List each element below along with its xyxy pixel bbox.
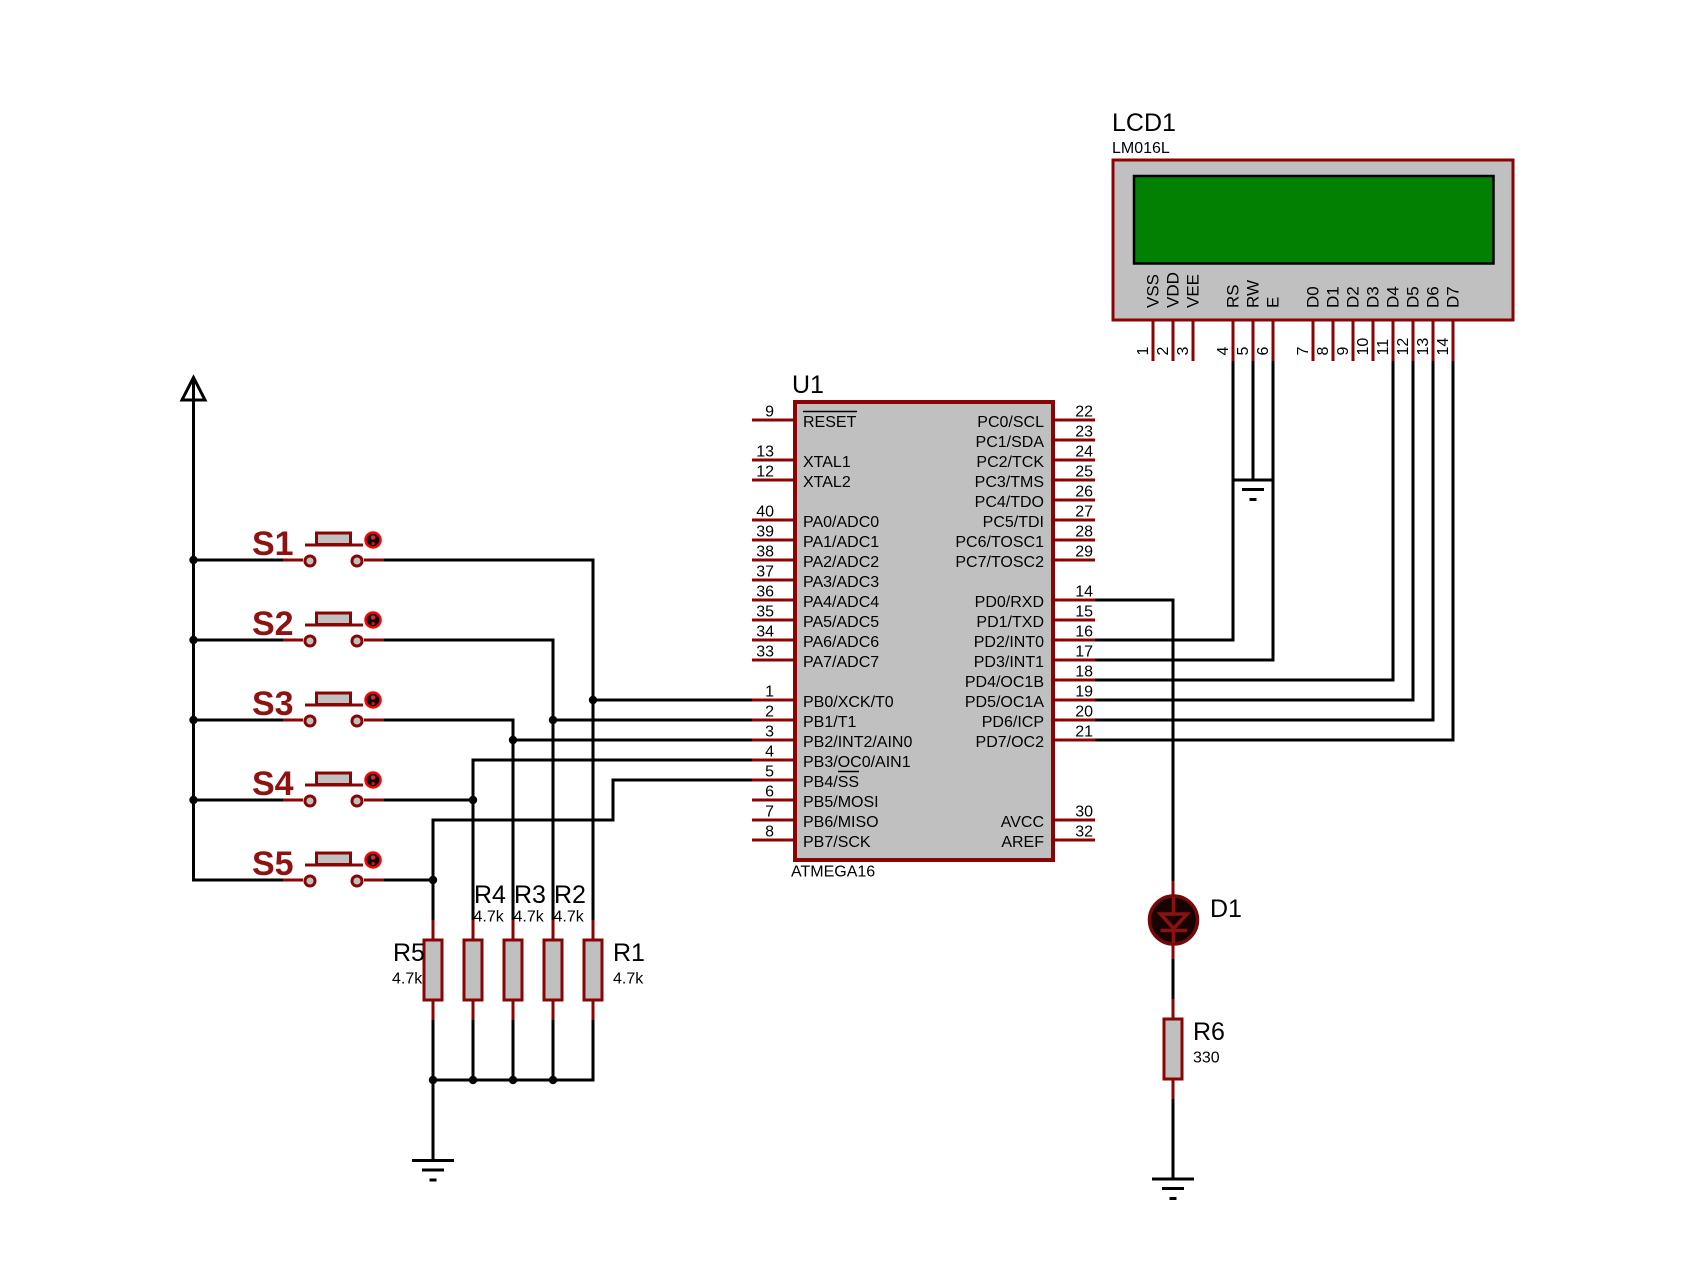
svg-text:PD3/INT1: PD3/INT1 bbox=[974, 654, 1044, 671]
svg-text:30: 30 bbox=[1075, 804, 1093, 821]
LCD1 pin 11 (D4) bbox=[1375, 286, 1403, 361]
resistor R5 (4.7k) bbox=[392, 920, 442, 1020]
svg-text:1: 1 bbox=[765, 684, 774, 701]
U1 pin 13 (XTAL1) bbox=[752, 444, 851, 472]
svg-text:1: 1 bbox=[1135, 347, 1152, 356]
wire node E down to R5 bbox=[432, 880, 435, 920]
wire R3 bottom bbox=[512, 1020, 515, 1080]
junction node C bbox=[509, 736, 517, 744]
U1 pin 17 (PD3/INT1) bbox=[974, 644, 1095, 672]
wire S1 to node A bbox=[384, 559, 595, 562]
svg-text:D5: D5 bbox=[1404, 286, 1423, 308]
svg-text:28: 28 bbox=[1075, 524, 1093, 541]
svg-text:VSS: VSS bbox=[1144, 274, 1163, 308]
svg-text:VDD: VDD bbox=[1164, 272, 1183, 308]
svg-text:11: 11 bbox=[1375, 339, 1392, 356]
svg-text:PA0/ADC0: PA0/ADC0 bbox=[803, 514, 879, 531]
LCD1 pin 7 (D0) bbox=[1295, 286, 1323, 361]
svg-text:18: 18 bbox=[1075, 664, 1093, 681]
svg-text:2: 2 bbox=[1155, 347, 1172, 356]
svg-text:4.7k: 4.7k bbox=[613, 971, 644, 988]
wire R1 bottom bbox=[592, 1020, 595, 1082]
wire R4 bottom bbox=[472, 1020, 475, 1080]
wire U1 PD6 to LCD D6 bbox=[1095, 719, 1435, 722]
svg-text:36: 36 bbox=[756, 584, 774, 601]
junction rail S2 bbox=[189, 636, 197, 644]
svg-text:D1: D1 bbox=[1210, 895, 1242, 923]
wire S2 to node B bbox=[384, 639, 555, 642]
U1 pin 32 (AREF) bbox=[1001, 824, 1095, 852]
svg-text:7: 7 bbox=[1295, 347, 1312, 356]
push button S2 bbox=[252, 605, 384, 646]
U1 pin 33 (PA7/ADC7) bbox=[752, 644, 879, 672]
svg-text:2: 2 bbox=[765, 704, 774, 721]
svg-text:PB7/SCK: PB7/SCK bbox=[803, 834, 871, 851]
U1 pin 40 (PA0/ADC0) bbox=[752, 504, 879, 532]
wire rail to S4 bbox=[192, 799, 283, 802]
svg-text:R2: R2 bbox=[554, 881, 586, 909]
svg-text:R4: R4 bbox=[474, 881, 506, 909]
svg-text:PC6/TOSC1: PC6/TOSC1 bbox=[955, 534, 1044, 551]
svg-text:17: 17 bbox=[1075, 644, 1093, 661]
LCD1 pin 5 (RW) bbox=[1235, 280, 1263, 361]
push button S4 bbox=[252, 765, 384, 806]
wire U1 PD5 to LCD D5 bbox=[1095, 699, 1415, 702]
svg-text:23: 23 bbox=[1075, 424, 1093, 441]
wire node D up to U1 PB3 bbox=[472, 760, 475, 802]
svg-text:PA4/ADC4: PA4/ADC4 bbox=[803, 594, 879, 611]
svg-text:PB2/INT2/AIN0: PB2/INT2/AIN0 bbox=[803, 734, 912, 751]
junction node E bbox=[429, 876, 437, 884]
U1 pin 27 (PC5/TDI) bbox=[983, 504, 1095, 532]
junction rail S3 bbox=[189, 716, 197, 724]
svg-text:S4: S4 bbox=[252, 765, 294, 803]
push button S1 bbox=[252, 525, 384, 566]
svg-text:21: 21 bbox=[1075, 724, 1093, 741]
svg-text:D6: D6 bbox=[1424, 286, 1443, 308]
LCD1 pin 1 (VSS) bbox=[1135, 274, 1163, 361]
U1 pin 9 (RESET) bbox=[752, 404, 857, 432]
junction rail S1 bbox=[189, 556, 197, 564]
svg-text:20: 20 bbox=[1075, 704, 1093, 721]
svg-text:40: 40 bbox=[756, 504, 774, 521]
U1 pin 19 (PD5/OC1A) bbox=[965, 684, 1095, 712]
svg-text:6: 6 bbox=[1255, 347, 1272, 356]
power terminal arrow bbox=[182, 378, 205, 401]
svg-text:PD0/RXD: PD0/RXD bbox=[975, 594, 1044, 611]
svg-text:PC3/TMS: PC3/TMS bbox=[975, 474, 1044, 491]
svg-text:9: 9 bbox=[1335, 347, 1352, 356]
svg-text:25: 25 bbox=[1075, 464, 1093, 481]
svg-text:12: 12 bbox=[1395, 338, 1412, 356]
U1 pin 25 (PC3/TMS) bbox=[975, 464, 1095, 492]
wire node C to U1 PB2 bbox=[513, 739, 752, 742]
U1 pin 21 (PD7/OC2) bbox=[976, 724, 1095, 752]
LCD1 pin 4 (RS) bbox=[1215, 284, 1243, 361]
svg-text:XTAL1: XTAL1 bbox=[803, 454, 851, 471]
ground symbol (LCD RW) bbox=[1232, 480, 1274, 500]
wire node A down to R1 bbox=[592, 700, 595, 920]
svg-text:AREF: AREF bbox=[1001, 834, 1044, 851]
U1 pin 12 (XTAL2) bbox=[752, 464, 851, 492]
U1 pin 6 (PB5/MOSI) bbox=[752, 784, 879, 812]
svg-text:R5: R5 bbox=[393, 939, 425, 967]
U1 pin 36 (PA4/ADC4) bbox=[752, 584, 879, 612]
svg-text:15: 15 bbox=[1075, 604, 1093, 621]
svg-text:29: 29 bbox=[1075, 544, 1093, 561]
svg-text:R6: R6 bbox=[1193, 1018, 1225, 1046]
U1 pin 37 (PA3/ADC3) bbox=[752, 564, 879, 592]
junction rail S4 bbox=[189, 796, 197, 804]
svg-text:37: 37 bbox=[756, 564, 774, 581]
svg-text:S5: S5 bbox=[252, 845, 294, 883]
wire D1 to R6 bbox=[1172, 959, 1175, 999]
svg-text:RW: RW bbox=[1244, 280, 1263, 308]
svg-text:8: 8 bbox=[765, 824, 774, 841]
wire node E up to U1 PB4 bbox=[432, 820, 435, 882]
U1 pin 1 (PB0/XCK/T0) bbox=[752, 684, 894, 712]
svg-text:E: E bbox=[1264, 297, 1283, 308]
svg-text:7: 7 bbox=[765, 804, 774, 821]
svg-text:LCD1: LCD1 bbox=[1112, 109, 1176, 137]
U1 pin 18 (PD4/OC1B) bbox=[965, 664, 1095, 692]
U1 pin 15 (PD1/TXD) bbox=[976, 604, 1095, 632]
U1 pin 23 (PC1/SDA) bbox=[976, 424, 1095, 452]
wire node B to U1 PB1 bbox=[553, 719, 752, 722]
svg-text:PD7/OC2: PD7/OC2 bbox=[976, 734, 1045, 751]
svg-text:RS: RS bbox=[1224, 284, 1243, 308]
svg-text:12: 12 bbox=[756, 464, 774, 481]
U1 pin 39 (PA1/ADC1) bbox=[752, 524, 879, 552]
junction bus R5 bbox=[429, 1076, 437, 1084]
svg-text:4.7k: 4.7k bbox=[392, 971, 423, 988]
svg-text:PD6/ICP: PD6/ICP bbox=[982, 714, 1044, 731]
IC U1 ATMEGA16 body bbox=[791, 371, 1053, 881]
wire node A to U1 PB0 bbox=[593, 699, 752, 702]
svg-text:39: 39 bbox=[756, 524, 774, 541]
svg-text:R1: R1 bbox=[613, 939, 645, 967]
svg-text:32: 32 bbox=[1075, 824, 1093, 841]
LCD1 pin 9 (D2) bbox=[1335, 286, 1363, 361]
svg-text:330: 330 bbox=[1193, 1050, 1220, 1067]
svg-text:D2: D2 bbox=[1344, 286, 1363, 308]
svg-text:D4: D4 bbox=[1384, 286, 1403, 308]
svg-text:D7: D7 bbox=[1444, 286, 1463, 308]
svg-text:XTAL2: XTAL2 bbox=[803, 474, 851, 491]
svg-text:VEE: VEE bbox=[1184, 274, 1203, 308]
svg-text:13: 13 bbox=[1415, 338, 1432, 356]
svg-text:34: 34 bbox=[756, 624, 774, 641]
wire rail to S3 bbox=[192, 719, 283, 722]
wire U1 PD0 to D1 bbox=[1095, 599, 1175, 602]
svg-text:6: 6 bbox=[765, 784, 774, 801]
svg-text:9: 9 bbox=[765, 404, 774, 421]
svg-text:PC4/TDO: PC4/TDO bbox=[975, 494, 1044, 511]
power arrow stem bbox=[192, 381, 195, 402]
svg-text:PD5/OC1A: PD5/OC1A bbox=[965, 694, 1044, 711]
svg-text:PB0/XCK/T0: PB0/XCK/T0 bbox=[803, 694, 894, 711]
wire R5 bottom bbox=[432, 1020, 435, 1080]
svg-text:S3: S3 bbox=[252, 685, 294, 723]
svg-text:5: 5 bbox=[765, 764, 774, 781]
resistor R6 (330) bbox=[1164, 999, 1225, 1099]
push button S3 bbox=[252, 685, 384, 726]
wire R2 bottom bbox=[552, 1020, 555, 1080]
svg-text:PC7/TOSC2: PC7/TOSC2 bbox=[955, 554, 1044, 571]
svg-text:19: 19 bbox=[1075, 684, 1093, 701]
wire U1 PD2 to LCD RS bbox=[1095, 639, 1235, 642]
svg-text:PA5/ADC5: PA5/ADC5 bbox=[803, 614, 879, 631]
U1 pin 3 (PB2/INT2/AIN0) bbox=[752, 724, 912, 752]
U1 pin 28 (PC6/TOSC1) bbox=[955, 524, 1095, 552]
svg-text:PB6/MISO: PB6/MISO bbox=[803, 814, 879, 831]
wire S5 to node E bbox=[384, 879, 433, 882]
svg-text:PB3/OC0/AIN1: PB3/OC0/AIN1 bbox=[803, 754, 911, 771]
wire LCD RW to ground bbox=[1252, 361, 1255, 480]
wire rail to S1 bbox=[192, 559, 283, 562]
svg-text:D1: D1 bbox=[1324, 286, 1343, 308]
svg-text:14: 14 bbox=[1075, 584, 1093, 601]
LCD1 pin 13 (D6) bbox=[1415, 286, 1443, 361]
svg-text:5: 5 bbox=[1235, 347, 1252, 356]
wire S4 to node D bbox=[384, 799, 473, 802]
U1 pin 26 (PC4/TDO) bbox=[975, 484, 1095, 512]
svg-text:4.7k: 4.7k bbox=[554, 909, 585, 926]
svg-text:4.7k: 4.7k bbox=[514, 909, 545, 926]
wire resistor ground bus bbox=[433, 1079, 595, 1082]
svg-text:4: 4 bbox=[765, 744, 774, 761]
svg-text:16: 16 bbox=[1075, 624, 1093, 641]
U1 pin 20 (PD6/ICP) bbox=[982, 704, 1095, 732]
svg-text:3: 3 bbox=[765, 724, 774, 741]
U1 pin 8 (PB7/SCK) bbox=[752, 824, 871, 852]
svg-text:PA1/ADC1: PA1/ADC1 bbox=[803, 534, 879, 551]
svg-text:10: 10 bbox=[1355, 338, 1372, 356]
wire rail to S5 bbox=[192, 879, 283, 882]
junction bus R3 bbox=[509, 1076, 517, 1084]
svg-text:U1: U1 bbox=[792, 371, 824, 399]
svg-text:S1: S1 bbox=[252, 525, 294, 563]
svg-text:4: 4 bbox=[1215, 347, 1232, 356]
svg-text:S2: S2 bbox=[252, 605, 294, 643]
LED D1 bbox=[1150, 881, 1242, 959]
svg-text:PC1/SDA: PC1/SDA bbox=[976, 434, 1045, 451]
U1 pin 16 (PD2/INT0) bbox=[974, 624, 1095, 652]
svg-text:22: 22 bbox=[1075, 404, 1093, 421]
wire rail to S2 bbox=[192, 639, 283, 642]
ground symbol (below R bus) bbox=[412, 1161, 454, 1181]
svg-text:PA2/ADC2: PA2/ADC2 bbox=[803, 554, 879, 571]
LCD1 pin 3 (VEE) bbox=[1175, 274, 1203, 361]
LCD display LCD1 LM016L body bbox=[1112, 109, 1513, 320]
LCD1 pin 6 (E) bbox=[1255, 297, 1283, 361]
svg-text:PB1/T1: PB1/T1 bbox=[803, 714, 856, 731]
svg-text:PA3/ADC3: PA3/ADC3 bbox=[803, 574, 879, 591]
U1 pin 14 (PD0/RXD) bbox=[975, 584, 1095, 612]
svg-text:14: 14 bbox=[1435, 338, 1452, 356]
LCD1 pin 10 (D3) bbox=[1355, 286, 1383, 361]
wire U1 PD4 to LCD D4 bbox=[1095, 679, 1395, 682]
resistor R1 (4.7k) bbox=[584, 920, 645, 1020]
U1 pin 30 (AVCC) bbox=[1001, 804, 1095, 832]
junction node B bbox=[549, 716, 557, 724]
svg-text:D3: D3 bbox=[1364, 286, 1383, 308]
push button S5 bbox=[252, 845, 384, 886]
U1 pin 5 (PB4/SS) bbox=[752, 764, 859, 792]
svg-text:ATMEGA16: ATMEGA16 bbox=[791, 864, 875, 881]
svg-text:24: 24 bbox=[1075, 444, 1093, 461]
svg-text:PA7/ADC7: PA7/ADC7 bbox=[803, 654, 879, 671]
svg-text:PC2/TCK: PC2/TCK bbox=[976, 454, 1044, 471]
ground symbol (below R6) bbox=[1152, 1179, 1194, 1199]
svg-text:4.7k: 4.7k bbox=[474, 909, 505, 926]
U1 pin 2 (PB1/T1) bbox=[752, 704, 856, 732]
svg-text:D0: D0 bbox=[1304, 286, 1323, 308]
svg-text:8: 8 bbox=[1315, 347, 1332, 356]
U1 pin 24 (PC2/TCK) bbox=[976, 444, 1095, 472]
svg-text:RESET: RESET bbox=[803, 414, 857, 431]
wire node D down to R4 bbox=[472, 800, 475, 920]
svg-text:35: 35 bbox=[756, 604, 774, 621]
U1 pin 7 (PB6/MISO) bbox=[752, 804, 879, 832]
wire node B down to R2 bbox=[552, 720, 555, 920]
U1 pin 35 (PA5/ADC5) bbox=[752, 604, 879, 632]
wire bus to ground bbox=[432, 1080, 435, 1160]
U1 pin 38 (PA2/ADC2) bbox=[752, 544, 879, 572]
resistor R4 (4.7k) bbox=[464, 881, 506, 1020]
svg-text:LM016L: LM016L bbox=[1112, 140, 1170, 157]
svg-text:27: 27 bbox=[1075, 504, 1093, 521]
svg-text:PD2/INT0: PD2/INT0 bbox=[974, 634, 1044, 651]
junction node D bbox=[469, 796, 477, 804]
svg-text:38: 38 bbox=[756, 544, 774, 561]
U1 pin 4 (PB3/OC0/AIN1) bbox=[752, 744, 911, 772]
wire R6 to ground bbox=[1172, 1099, 1175, 1178]
svg-text:13: 13 bbox=[756, 444, 774, 461]
svg-text:3: 3 bbox=[1175, 347, 1192, 356]
svg-text:26: 26 bbox=[1075, 484, 1093, 501]
wire U1 PD7 to LCD D7 bbox=[1095, 739, 1455, 742]
junction bus R2 bbox=[549, 1076, 557, 1084]
svg-text:AVCC: AVCC bbox=[1001, 814, 1044, 831]
svg-text:PD4/OC1B: PD4/OC1B bbox=[965, 674, 1044, 691]
LCD1 pin 2 (VDD) bbox=[1155, 272, 1183, 361]
wire U1 PD3 to LCD E bbox=[1095, 659, 1275, 662]
wire node C down to R3 bbox=[512, 740, 515, 920]
svg-text:R3: R3 bbox=[514, 881, 546, 909]
svg-text:PB4/SS: PB4/SS bbox=[803, 774, 859, 791]
svg-text:PB5/MOSI: PB5/MOSI bbox=[803, 794, 879, 811]
LCD1 pin 8 (D1) bbox=[1315, 286, 1343, 361]
U1 pin 22 (PC0/SCL) bbox=[977, 404, 1095, 432]
resistor R3 (4.7k) bbox=[504, 881, 546, 1020]
junction bus R4 bbox=[469, 1076, 477, 1084]
LCD1 pin 12 (D5) bbox=[1395, 286, 1423, 361]
junction node A bbox=[589, 696, 597, 704]
svg-text:PA6/ADC6: PA6/ADC6 bbox=[803, 634, 879, 651]
svg-text:PC5/TDI: PC5/TDI bbox=[983, 514, 1044, 531]
wire power rail vertical bbox=[192, 381, 195, 880]
svg-text:PD1/TXD: PD1/TXD bbox=[976, 614, 1044, 631]
U1 pin 34 (PA6/ADC6) bbox=[752, 624, 879, 652]
U1 pin 29 (PC7/TOSC2) bbox=[955, 544, 1095, 572]
svg-text:PC0/SCL: PC0/SCL bbox=[977, 414, 1044, 431]
wire S3 to node C bbox=[384, 719, 515, 722]
resistor R2 (4.7k) bbox=[544, 881, 586, 1020]
LCD1 pin 14 (D7) bbox=[1435, 286, 1463, 361]
svg-text:33: 33 bbox=[756, 644, 774, 661]
